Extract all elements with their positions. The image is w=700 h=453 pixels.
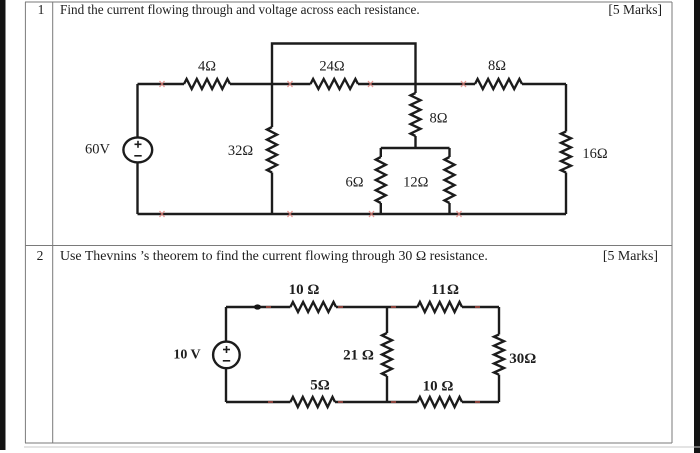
red terminal marks circuit 1 (tiny pink asterisks at junctions) — [160, 81, 467, 217]
svg-text:Use Thevnins ’s theorem to fin: Use Thevnins ’s theorem to find the curr… — [60, 249, 488, 264]
svg-text:32Ω: 32Ω — [228, 143, 254, 159]
terminal mark: 10ohm top right terminal — [338, 306, 343, 308]
wire top rail: R 24ohm to R 8ohm horizontal (through node B) — [358, 83, 475, 85]
resistor 6ohm — [376, 157, 386, 203]
wire: parallel section top bar (node C) — [381, 147, 450, 149]
svg-text:1: 1 — [38, 2, 45, 17]
svg-text:2: 2 — [37, 248, 44, 263]
V1 minus sign — [134, 155, 141, 157]
table row divider — [25, 245, 672, 247]
labels circuit 2 (bold) — [173, 282, 536, 395]
junction mark: bottom rail left — [160, 211, 165, 217]
wire bottom rail: left corner to R 5ohm — [226, 401, 290, 403]
wire: bottom rail circuit 1 — [138, 213, 567, 215]
svg-text:[5 Marks]: [5 Marks] — [603, 249, 658, 264]
V2 plus sign — [223, 346, 230, 361]
wire: right rail above 16ohm — [565, 84, 567, 132]
wire top rail: R 11ohm to right corner — [462, 306, 499, 308]
resistor 32ohm — [267, 127, 277, 173]
labels circuit 1 — [85, 58, 608, 191]
faint scan edge line at bottom — [24, 446, 700, 448]
wire bottom rail: R 5ohm to R 10ohm bottom (through node E) — [335, 401, 417, 403]
junction mark: 8ohm horizontal left terminal — [461, 81, 466, 87]
table left border — [24, 2, 26, 443]
resistor 30ohm — [494, 335, 504, 375]
wire: node C down to 6ohm — [380, 148, 382, 157]
svg-text:8Ω: 8Ω — [429, 111, 447, 127]
wire: left rail above source V1 — [136, 84, 138, 138]
wire: node D down to 21ohm — [386, 307, 388, 333]
terminal mark: 11ohm right terminal — [475, 306, 480, 308]
V2 minus sign — [223, 360, 230, 362]
svg-text:16Ω: 16Ω — [582, 146, 608, 162]
svg-text:6Ω: 6Ω — [345, 175, 363, 191]
svg-text:[5 Marks]: [5 Marks] — [608, 2, 662, 17]
wire bottom rail: R 10ohm bottom to right corner — [462, 401, 499, 403]
junction mark: 24ohm left terminal — [288, 81, 293, 87]
junction mark: bottom rail at 12ohm — [457, 211, 462, 217]
wire top rail: R 8ohm horizontal to right corner — [522, 83, 566, 85]
svg-text:10 V: 10 V — [173, 348, 200, 363]
wire: node C down to 12ohm — [448, 148, 450, 157]
terminal mark: node D right side — [391, 306, 396, 308]
resistor 5ohm — [290, 397, 335, 407]
svg-text:24Ω: 24Ω — [319, 59, 345, 75]
junction mark: bottom rail at 6ohm — [369, 211, 374, 217]
svg-text:30Ω: 30Ω — [509, 351, 536, 367]
wire: node B down to 8ohm vertical — [414, 84, 416, 93]
resistor 12ohm — [445, 157, 455, 203]
wire: 12ohm down to bottom rail — [448, 203, 450, 214]
red terminal marks circuit 2 — [266, 307, 480, 402]
terminal mark: bottom rail left of 5ohm — [268, 401, 273, 403]
wire: 32ohm down to bottom rail — [271, 173, 273, 215]
svg-text:10 Ω: 10 Ω — [289, 282, 320, 298]
table top border — [25, 1, 672, 3]
wire: right rail below 16ohm — [565, 173, 567, 215]
wire top rail: R 4ohm to R 24ohm (through node A) — [230, 83, 311, 85]
svg-text:5Ω: 5Ω — [310, 378, 330, 394]
svg-text:21 Ω: 21 Ω — [343, 348, 374, 364]
junction mark: top rail left — [160, 81, 165, 87]
svg-text:10 Ω: 10 Ω — [423, 379, 454, 395]
wire: 8ohm vertical down to parallel bar node C — [414, 136, 416, 148]
resistor 10ohm top — [290, 302, 336, 312]
voltage source V1 60V — [123, 137, 152, 162]
wire: left rail below source V1 — [136, 162, 138, 214]
V1 plus sign — [134, 141, 141, 156]
svg-text:Find the current flowing throu: Find the current flowing through and vol… — [60, 2, 420, 17]
resistor 21ohm — [382, 333, 392, 376]
svg-text:11Ω: 11Ω — [431, 282, 460, 298]
terminal mark: 5ohm right terminal — [338, 401, 343, 403]
svg-text:12Ω: 12Ω — [403, 175, 429, 191]
svg-text:8Ω: 8Ω — [488, 58, 506, 74]
wire top rail: R 10ohm top to R 11ohm (through node D) — [336, 306, 417, 308]
svg-text:4Ω: 4Ω — [198, 59, 216, 75]
wire: top bypass loop over 24ohm — [272, 44, 416, 85]
resistor 11ohm — [417, 302, 462, 312]
left black scan band — [0, 0, 6, 450]
junction dot on top rail — [254, 304, 261, 309]
svg-text:60V: 60V — [85, 142, 111, 158]
resistor 8ohm vertical — [411, 93, 421, 136]
resistor 8ohm horizontal — [475, 79, 522, 89]
voltage source V2 10V — [213, 342, 240, 369]
wire: left rail below source V2 — [225, 368, 227, 402]
table bottom border — [25, 442, 672, 444]
table right border — [671, 2, 673, 443]
wire: right rail below 30ohm — [498, 375, 500, 402]
wire top rail: source corner to R 4ohm — [138, 83, 185, 85]
wire top rail: source V2 corner to R 10ohm top — [226, 306, 290, 308]
junction mark: bottom rail at 32ohm — [288, 211, 293, 217]
wire: node A down to 32ohm — [271, 84, 273, 127]
right black scan band — [694, 0, 700, 453]
wire: 21ohm down to node E — [386, 376, 388, 402]
terminal mark: 10ohm bottom right terminal — [475, 401, 480, 403]
resistor 24ohm — [311, 79, 359, 89]
resistor 10ohm bottom — [417, 397, 462, 407]
table inner column border — [52, 2, 54, 443]
wire: 6ohm down to bottom rail — [380, 203, 382, 214]
wire: right rail above 30ohm — [498, 307, 500, 335]
terminal mark: node E right side — [391, 401, 396, 403]
wire: left rail above source V2 — [225, 307, 227, 342]
terminal mark: top rail after junction dot — [266, 306, 271, 308]
resistor 16ohm — [561, 132, 571, 173]
resistor 4ohm — [184, 79, 230, 89]
junction mark: 24ohm right terminal — [368, 81, 373, 87]
